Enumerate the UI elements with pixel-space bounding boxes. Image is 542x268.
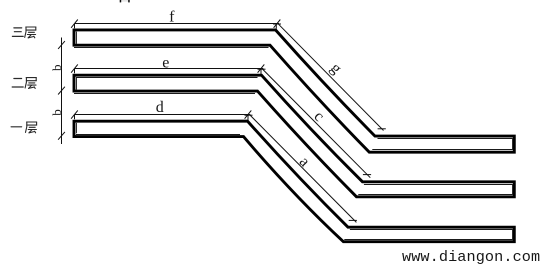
vertical dimension line for storey heights	[58, 38, 65, 145]
band 1 inner thin line at left cap	[76, 32, 78, 44]
svg-text:f: f	[169, 8, 175, 25]
band 2 thin line under left slab bottom	[74, 93, 255, 95]
band 1 right slab inner thin outline	[372, 139, 512, 150]
band 3 thin line above left slab bottom	[76, 134, 240, 136]
floor label 二层 (second floor)	[12, 79, 23, 88]
dimension line a (along bottom incline)	[245, 115, 357, 222]
floor label 三层 (third floor)	[12, 28, 23, 37]
dimension line e	[71, 64, 264, 74]
band 2 inner thin line at left cap	[76, 77, 78, 90]
stair flight band 1 (third floor) outline	[74, 30, 514, 152]
dimension line d	[71, 110, 251, 120]
svg-text:www.diangon.com: www.diangon.com	[402, 248, 540, 266]
svg-text:d: d	[156, 99, 164, 116]
band 2 right slab inner thin outline	[358, 185, 512, 195]
band 3 right slab inner thin outline	[344, 230, 512, 240]
svg-text:e: e	[162, 54, 169, 71]
band 3 inner thin line at left cap	[76, 123, 78, 133]
cropped text fragment at top edge	[120, 0, 130, 2]
stair flight band 3 (first floor) outline	[74, 121, 514, 242]
band 2 thin line under left slab top	[76, 77, 258, 79]
dimension line g (along top incline)	[273, 23, 386, 130]
dimension line c (along middle incline)	[258, 69, 372, 178]
floor label 一层 (first floor)	[11, 126, 22, 128]
svg-text:b: b	[49, 109, 64, 116]
band 1 thin line under left slab bottom	[74, 47, 269, 49]
stair flight band 2 (second floor) outline	[74, 75, 514, 197]
dimension line f	[71, 20, 280, 29]
svg-text:b: b	[49, 65, 64, 72]
